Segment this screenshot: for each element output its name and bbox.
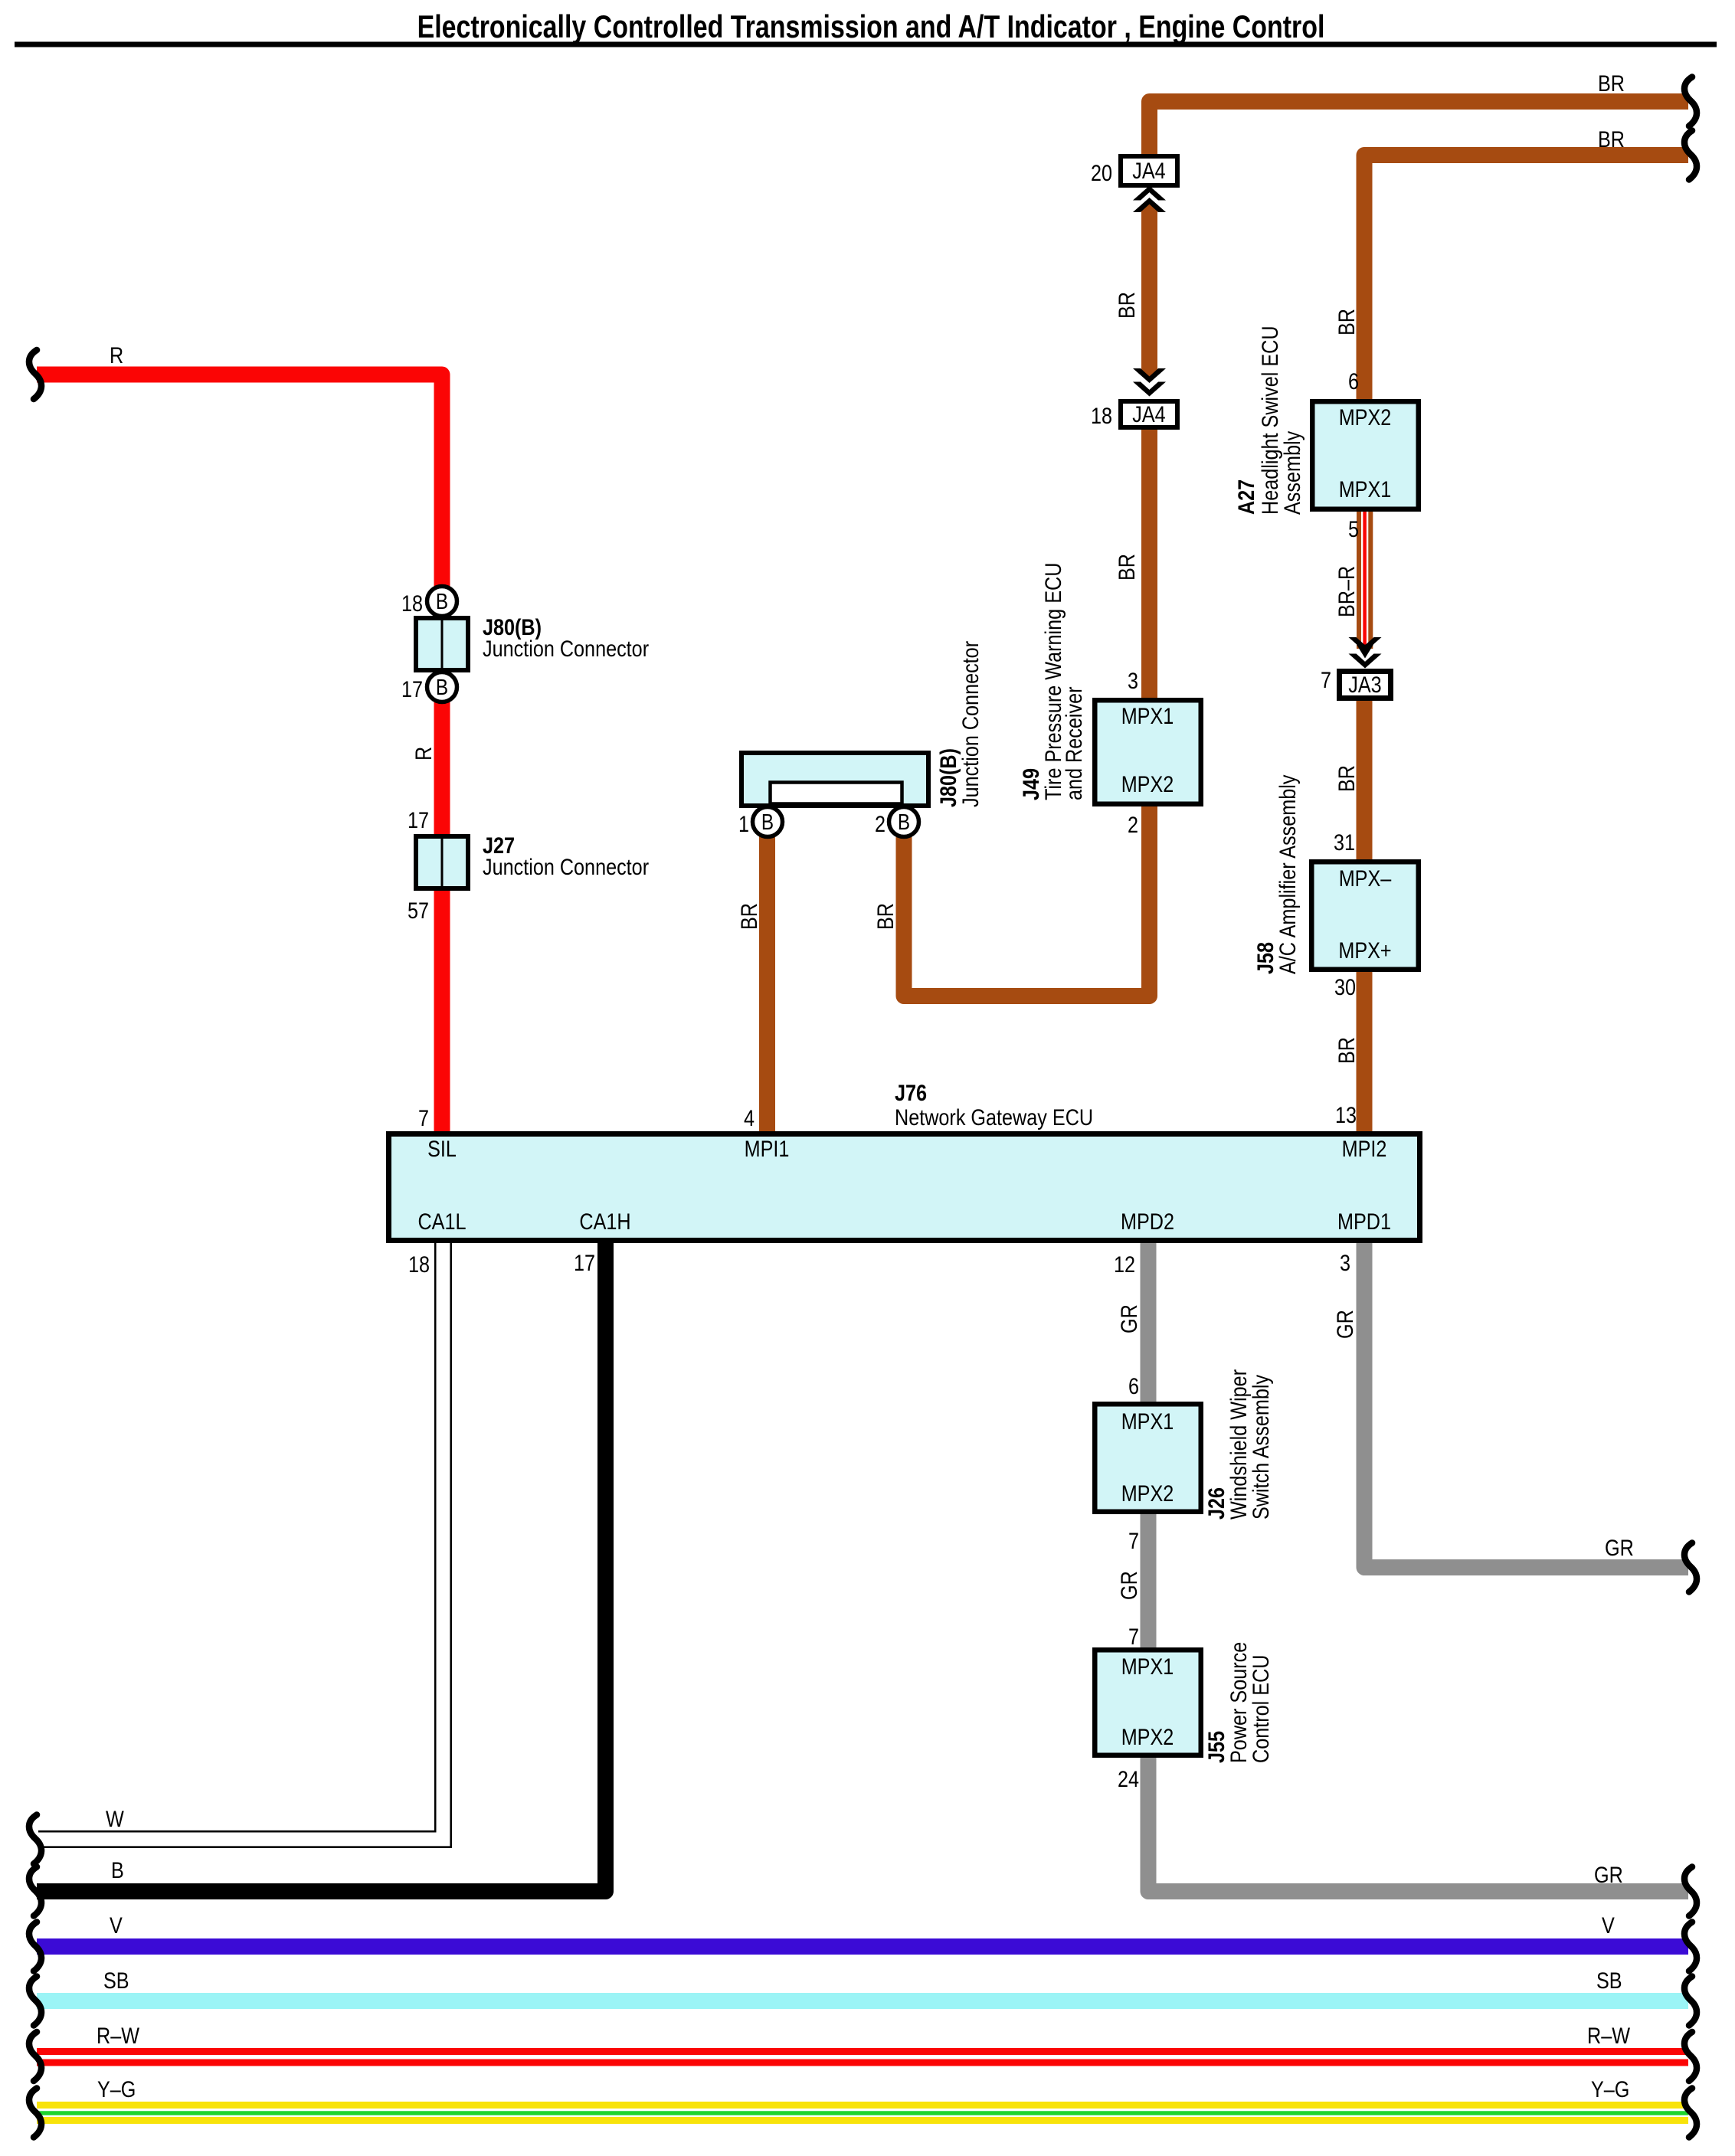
svg-text:7: 7 <box>1321 668 1331 693</box>
svg-text:7: 7 <box>418 1106 429 1131</box>
svg-text:V: V <box>110 1913 123 1938</box>
wire BR-R stripe brown left <box>1357 512 1361 649</box>
wire GR from J76 MPD2 to J26 <box>1141 1242 1157 1404</box>
wire BR between JA4-20 and JA4-18 with pointed tips <box>1141 201 1157 380</box>
ECU J49 Tire Pressure box <box>1095 700 1201 804</box>
svg-text:Switch Assembly: Switch Assembly <box>1249 1375 1274 1520</box>
svg-text:R: R <box>110 343 123 368</box>
svg-text:6: 6 <box>1348 369 1359 394</box>
svg-text:MPX2: MPX2 <box>1121 1725 1174 1750</box>
svg-text:A/C Amplifier Assembly: A/C Amplifier Assembly <box>1275 775 1301 975</box>
svg-text:2: 2 <box>875 812 886 837</box>
svg-text:SIL: SIL <box>427 1137 457 1162</box>
connector JA4 pin 18 box <box>1121 401 1177 427</box>
break symbol R left <box>29 350 41 399</box>
svg-text:Junction Connector: Junction Connector <box>958 641 984 807</box>
ECU J26 Wiper Switch box <box>1095 1404 1201 1512</box>
svg-text:CA1L: CA1L <box>417 1209 466 1235</box>
svg-text:W: W <box>106 1807 124 1832</box>
break symbol B left <box>29 1867 41 1916</box>
svg-text:MPX1: MPX1 <box>1121 704 1174 729</box>
svg-text:BR–R: BR–R <box>1334 566 1360 617</box>
svg-text:Junction Connector: Junction Connector <box>483 855 649 880</box>
wire SB <box>37 1993 1688 2009</box>
svg-text:MPX+: MPX+ <box>1338 938 1391 963</box>
svg-text:and Receiver: and Receiver <box>1062 686 1087 800</box>
svg-text:CA1H: CA1H <box>579 1209 630 1235</box>
wire Y-G green stripe <box>37 2111 1688 2115</box>
wire BR-R stripe brown right <box>1368 512 1373 649</box>
svg-text:Y–G: Y–G <box>1591 2077 1629 2102</box>
wire Y-G yellow top <box>37 2102 1688 2109</box>
junction circle 17 B <box>427 672 457 702</box>
svg-text:18: 18 <box>1091 404 1112 429</box>
svg-text:18: 18 <box>401 591 423 617</box>
svg-text:20: 20 <box>1091 161 1112 186</box>
svg-text:BR: BR <box>737 903 762 930</box>
svg-text:BR: BR <box>1115 292 1140 319</box>
svg-text:V: V <box>1602 1913 1615 1938</box>
svg-text:BR: BR <box>1334 309 1360 335</box>
svg-text:6: 6 <box>1128 1374 1139 1399</box>
break symbol BR right 1 <box>1684 77 1697 126</box>
wire BR from JA4-18 through J49 to J80(B) pin 2 <box>904 427 1150 996</box>
svg-text:B: B <box>111 1858 124 1883</box>
svg-text:JA3: JA3 <box>1348 672 1381 698</box>
svg-text:MPX1: MPX1 <box>1121 1654 1174 1680</box>
svg-text:MPX–: MPX– <box>1339 866 1392 892</box>
title rule <box>15 42 1717 47</box>
svg-text:7: 7 <box>1128 1529 1139 1554</box>
svg-text:17: 17 <box>574 1251 595 1276</box>
svg-text:GR: GR <box>1605 1536 1634 1561</box>
ECU J76 Network Gateway box <box>389 1134 1420 1241</box>
ECU A27 Headlight Swivel box <box>1312 401 1419 509</box>
break symbol W left <box>29 1815 41 1864</box>
svg-text:JA4: JA4 <box>1132 402 1165 427</box>
svg-text:17: 17 <box>408 808 429 833</box>
svg-text:Control ECU: Control ECU <box>1249 1655 1274 1764</box>
svg-text:B: B <box>436 676 448 700</box>
svg-text:Y–G: Y–G <box>97 2077 136 2102</box>
svg-text:GR: GR <box>1117 1304 1142 1333</box>
break symbol GR right mid <box>1684 1543 1697 1592</box>
break symbol V right <box>1684 1922 1697 1971</box>
svg-text:MPX1: MPX1 <box>1121 1409 1174 1435</box>
svg-text:17: 17 <box>401 677 423 702</box>
svg-text:GR: GR <box>1594 1863 1623 1888</box>
junction J27 box <box>416 836 468 888</box>
wire R-W red bottom <box>37 2059 1688 2066</box>
wire GR from J26 to J55 <box>1141 1512 1157 1650</box>
wire R-W red top <box>37 2048 1688 2055</box>
svg-text:MPI1: MPI1 <box>745 1137 790 1162</box>
wire BR-R stripe red center <box>1363 512 1367 651</box>
svg-text:7: 7 <box>1128 1624 1139 1650</box>
svg-text:30: 30 <box>1334 975 1356 1000</box>
svg-text:18: 18 <box>408 1252 430 1278</box>
svg-text:5: 5 <box>1348 517 1359 542</box>
wire GR from J76 MPD1 to right break <box>1364 1242 1688 1568</box>
svg-text:BR: BR <box>1334 1037 1360 1064</box>
wire GR from J55 to right break <box>1148 1755 1688 1892</box>
svg-text:SB: SB <box>103 1968 129 1994</box>
svg-text:Network Gateway ECU: Network Gateway ECU <box>895 1105 1093 1130</box>
svg-text:B: B <box>761 810 774 835</box>
svg-text:A27: A27 <box>1234 479 1259 515</box>
svg-text:JA4: JA4 <box>1132 159 1165 184</box>
svg-text:B: B <box>898 810 910 835</box>
junction J80(B) left box <box>416 618 468 670</box>
junction circle 2 B <box>889 807 919 837</box>
svg-text:SB: SB <box>1596 1968 1622 1994</box>
svg-text:B: B <box>436 590 448 614</box>
wire BR from J80(B) pin 1 to J76 MPI1 <box>759 836 775 1134</box>
svg-text:3: 3 <box>1128 669 1138 694</box>
break symbol R-W left <box>29 2032 41 2081</box>
svg-text:MPI2: MPI2 <box>1342 1137 1387 1162</box>
junction J80(B) bus box <box>741 753 928 806</box>
svg-text:GR: GR <box>1117 1571 1142 1600</box>
svg-text:31: 31 <box>1334 830 1355 856</box>
break symbol R-W right <box>1684 2032 1697 2081</box>
svg-text:GR: GR <box>1333 1310 1358 1339</box>
svg-text:R–W: R–W <box>97 2023 140 2049</box>
break symbol V left <box>29 1922 41 1971</box>
svg-text:57: 57 <box>408 898 429 924</box>
wire W outline inner <box>38 1243 435 1831</box>
svg-text:12: 12 <box>1114 1252 1135 1278</box>
break symbol Y-G right <box>1684 2089 1697 2138</box>
wire W outline outer <box>38 1243 451 1847</box>
svg-text:MPX2: MPX2 <box>1121 772 1174 797</box>
connector JA4 pin 20 box <box>1121 156 1177 185</box>
svg-text:MPD1: MPD1 <box>1337 1209 1391 1235</box>
svg-text:BR: BR <box>1334 765 1360 792</box>
break symbol Y-G left <box>29 2089 41 2138</box>
svg-text:Electronically Controlled Tran: Electronically Controlled Transmission a… <box>417 8 1325 44</box>
svg-text:MPD2: MPD2 <box>1121 1209 1174 1235</box>
svg-text:13: 13 <box>1335 1103 1357 1128</box>
break symbol GR right low <box>1684 1867 1697 1916</box>
svg-text:MPX1: MPX1 <box>1339 477 1392 502</box>
svg-text:MPX2: MPX2 <box>1339 405 1392 430</box>
wire Y-G yellow bottom <box>37 2117 1688 2124</box>
wire B from J76 CA1H to left break <box>37 1242 606 1892</box>
svg-text:24: 24 <box>1118 1767 1139 1792</box>
arrow into JA4-20 <box>1133 186 1166 201</box>
junction circle 18 B <box>427 587 457 617</box>
wire BR from right break to A27 pin 6 <box>1364 155 1688 402</box>
svg-text:4: 4 <box>744 1106 755 1131</box>
connector JA3 box <box>1340 672 1391 698</box>
ECU J55 Power Source box <box>1095 1650 1201 1755</box>
break symbol SB left <box>29 1977 41 2026</box>
wire BR-R pointed tip <box>1357 645 1373 659</box>
svg-text:1: 1 <box>738 812 749 837</box>
ECU J58 AC Amplifier box <box>1311 862 1419 970</box>
junction circle 1 B <box>753 807 783 837</box>
wire V <box>37 1938 1688 1955</box>
svg-text:R: R <box>411 747 437 761</box>
wire R from left break to J76 SIL <box>37 375 442 1134</box>
svg-text:BR: BR <box>1598 71 1625 97</box>
svg-text:2: 2 <box>1128 813 1138 838</box>
break symbol BR right 2 <box>1684 131 1697 180</box>
wire BR from JA3 through J58 to J76 MPI2 <box>1357 698 1373 1134</box>
break symbol SB right <box>1684 1977 1697 2026</box>
arrow into JA4-18 <box>1133 368 1166 383</box>
svg-text:3: 3 <box>1340 1251 1350 1276</box>
svg-text:Junction Connector: Junction Connector <box>483 636 649 662</box>
arrow into JA3 <box>1349 637 1382 652</box>
svg-text:Assembly: Assembly <box>1280 431 1305 515</box>
svg-text:BR: BR <box>1115 554 1140 581</box>
svg-text:MPX2: MPX2 <box>1121 1481 1174 1507</box>
svg-text:J76: J76 <box>895 1081 927 1106</box>
svg-text:BR: BR <box>1598 127 1625 152</box>
wire BR from JA4-20 to right break <box>1150 102 1689 159</box>
svg-text:BR: BR <box>873 903 899 930</box>
svg-text:R–W: R–W <box>1587 2023 1631 2049</box>
